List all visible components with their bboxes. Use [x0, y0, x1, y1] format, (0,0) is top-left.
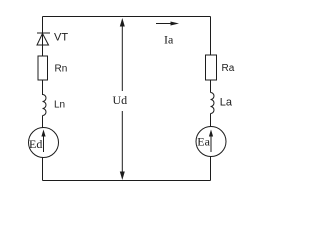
svg-text:La: La — [220, 97, 233, 109]
svg-text:Ud: Ud — [113, 93, 128, 107]
svg-text:Ra: Ra — [222, 63, 235, 74]
svg-text:Rn: Rn — [55, 63, 68, 74]
svg-text:Ed: Ed — [29, 137, 42, 151]
svg-text:Ea: Ea — [197, 135, 210, 149]
svg-text:Ln: Ln — [54, 100, 65, 111]
svg-text:Ia: Ia — [164, 33, 174, 47]
svg-text:VT: VT — [54, 32, 68, 44]
